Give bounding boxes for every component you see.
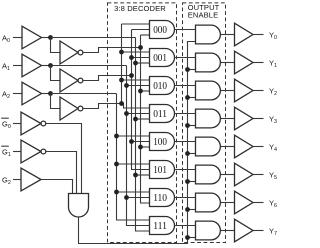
wire Y4 output [253,146,264,148]
wire gate 110 middle input [127,197,150,199]
AND gate output enable Y0 [196,25,221,44]
wire enable branch Y6 [188,209,196,211]
output buffer Y6 [235,191,254,214]
wire enable branch Y7 [188,237,196,239]
wire enable branch Y3 [188,125,196,127]
wire gate 100 bottom input [141,146,150,148]
wire net A0-bar from inverter [83,48,141,53]
AND gate output enable Y2 [196,81,221,100]
wire net A2-bar vertical [121,24,123,104]
junction A0 / 101 [133,173,138,178]
AND gate 011 (decoder) [150,105,175,123]
wire G2 to enable AND [41,180,73,194]
enable AND gate (3-input) [69,194,89,218]
junction A2-bar / 001 [119,50,124,55]
wire G1 to enable AND [46,152,77,194]
svg-text:011: 011 [153,109,167,120]
wire OE Y1 output [221,62,235,64]
wire A1 buffer output [42,65,51,67]
wire enable AND output to rail [79,42,196,244]
node A2 true junction [48,91,53,96]
junction A1 / 010 [124,83,129,88]
wire net A1-bar vertical [132,30,150,170]
wire decoder 110 output [175,197,196,199]
inverter A1-bar [60,69,78,92]
wire A2 to inverter [51,94,61,109]
wire net A0 true vertical [136,38,150,232]
wire A2 buffer output [42,93,51,95]
AND gate output enable Y4 [196,137,221,156]
junction enable rail / Y1 [185,67,190,72]
wire gate 000 bottom input [141,34,150,36]
wire Y6 output [253,202,264,204]
AND gate 000 (decoder) [150,21,175,39]
AND gate output enable Y7 [196,221,221,240]
svg-text:3:8 DECODER: 3:8 DECODER [114,4,166,13]
wire G0 to enable AND [46,124,82,194]
wire decoder 000 output [175,29,196,31]
AND gate 101 (decoder) [150,161,175,179]
wire Y5 output [253,174,264,176]
junction A2-bar source / 011 [119,101,124,106]
wire gate 110 top input [117,191,150,193]
buffer A0 [22,26,42,49]
junction A2 / 110 [114,190,119,195]
AND gate 010 (decoder) [150,77,175,95]
wire gate 001 top input [122,51,150,53]
wire net A0-bar vertical [141,35,150,203]
inverter G1-bar [21,140,41,163]
junction A0 / 011 [133,117,138,122]
output buffer Y4 [235,135,254,158]
wire gate 100 middle input [132,141,150,143]
junction A2 / 100 [114,134,119,139]
junction A1-bar / 001 [129,55,134,60]
wire OE Y5 output [221,174,235,176]
AND gate output enable Y6 [196,193,221,212]
wire gate 011 middle input [127,113,150,115]
wire gate 100 top input [117,135,150,137]
junction A0-bar / 010 [138,89,143,94]
AND gate 100 (decoder) [150,133,175,151]
wire net A0 true horizontal [51,37,136,39]
junction enable rail / Y2 [185,95,190,100]
svg-text:000: 000 [153,25,167,36]
junction A2-bar / 010 [119,78,124,83]
junction enable rail / Y4 [185,151,190,156]
junction A0-bar source [138,45,143,50]
svg-text:001: 001 [153,53,167,64]
AND gate output enable Y3 [196,109,221,128]
3:8 decoder block (dashed box) [108,3,177,243]
junction A1 / 110 [124,195,129,200]
wire Y1 output [253,62,264,64]
output buffer Y7 [235,219,254,242]
wire A2 input stub [13,93,22,95]
wire decoder 010 output [175,85,196,87]
output buffer Y3 [235,107,254,130]
junction enable rail / Y7 [185,235,190,240]
wire net A1 true vertical [127,66,150,226]
wire net A2-bar from inverter [83,104,122,109]
wire gate 001 bottom input [136,62,150,64]
wire decoder 100 output [175,141,196,143]
AND gate 111 (decoder) [150,217,175,235]
wire OE Y7 output [221,230,235,232]
svg-text:010: 010 [153,81,167,92]
input label G0 [1,117,9,120]
svg-text:100: 100 [153,137,167,148]
buffer A1 [22,54,42,77]
AND gate 001 (decoder) [150,49,175,67]
wire net A1 true horizontal [51,65,127,67]
junction A1-bar / 100 [129,139,134,144]
AND gate 110 (decoder) [150,189,175,207]
wire enable branch Y2 [188,97,196,99]
wire decoder 001 output [175,57,196,59]
junction A0 / 001 [133,61,138,66]
wire decoder 111 output [175,225,196,227]
wire G0 input stub [13,123,22,125]
wire net A1-bar from inverter [83,76,132,81]
wire gate 011 top input [122,104,150,109]
junction A2 / 101 [114,162,119,167]
wire gate 011 bottom input [136,118,150,120]
wire Y7 output [253,230,264,232]
wire OE Y2 output [221,90,235,92]
junction A1-bar source [129,73,134,78]
wire A0 input stub [13,37,22,39]
junction enable rail / Y6 [185,207,190,212]
inverter A2-bar [60,97,78,120]
svg-text:101: 101 [153,165,167,176]
wire gate 010 middle input [127,85,150,87]
wire net A2 true horizontal [51,93,117,95]
output buffer Y5 [235,163,254,186]
input label G1 [1,145,9,148]
wire Y2 output [253,90,264,92]
wire A1 to inverter [51,66,61,81]
wire net A2 true vertical [117,94,150,221]
junction A0-bar / 100 [138,145,143,150]
wire decoder 101 output [175,169,196,171]
wire enable branch Y5 [188,181,196,183]
wire G1 input stub [13,151,22,153]
buffer G2 [21,168,41,191]
wire A1 input stub [13,65,22,67]
svg-text:ENABLE: ENABLE [188,11,219,20]
svg-text:110: 110 [153,193,167,204]
wire gate 010 top input [122,79,150,81]
AND gate output enable Y5 [196,165,221,184]
wire A0 to inverter [51,38,61,53]
buffer A2 [22,82,42,105]
wire OE Y6 output [221,202,235,204]
output buffer Y1 [235,51,254,74]
inverter A0-bar [60,41,78,64]
svg-text:111: 111 [153,221,167,232]
wire gate 001 middle input [132,57,150,59]
wire Y3 output [253,118,264,120]
wire gate 101 bottom input [136,174,150,176]
wire gate 101 top input [117,163,150,165]
junction enable rail / Y5 [185,179,190,184]
wire OE Y3 output [221,118,235,120]
output buffer Y0 [235,23,254,46]
inverter G0-bar [21,112,41,135]
AND gate output enable Y1 [196,53,221,72]
node A0 true junction [48,35,53,40]
wire decoder 011 output [175,113,196,115]
wire OE Y0 output [221,34,235,36]
wire enable branch Y1 [188,69,196,71]
junction enable rail / Y3 [185,123,190,128]
wire gate 000 top input [122,23,150,25]
wire OE Y4 output [221,146,235,148]
wire gate 010 bottom input [141,90,150,92]
wire enable branch Y4 [188,153,196,155]
output enable block (dashed box) [183,3,226,243]
wire A0 buffer output [42,37,51,39]
junction A1 / 011 [124,111,129,116]
node A1 true junction [48,63,53,68]
wire Y0 output [253,34,264,36]
wire G2 input stub [13,179,22,181]
wire gate 000 middle input [132,29,150,31]
output buffer Y2 [235,79,254,102]
